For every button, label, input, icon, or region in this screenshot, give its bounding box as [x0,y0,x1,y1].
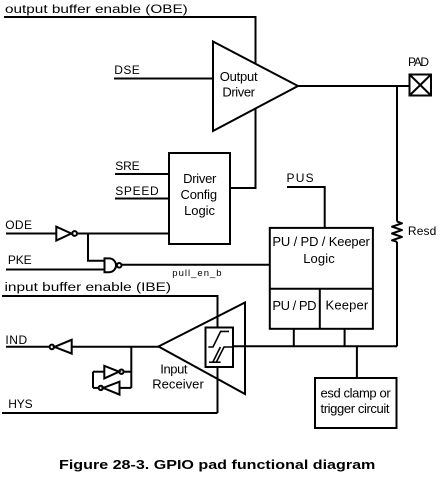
svg-text:Logic: Logic [184,203,215,218]
svg-text:Input: Input [160,362,188,377]
svg-text:PU / PD: PU / PD [272,298,316,313]
svg-text:Figure 28-3. GPIO pad function: Figure 28-3. GPIO pad functional diagram [59,459,375,473]
svg-text:trigger circuit: trigger circuit [321,401,390,416]
svg-text:Driver: Driver [183,171,217,186]
svg-text:esd clamp or: esd clamp or [321,385,392,400]
svg-text:Receiver: Receiver [152,377,204,392]
svg-text:PAD: PAD [408,55,429,69]
svg-text:SPEED: SPEED [115,184,159,198]
svg-text:Resd: Resd [408,224,436,238]
svg-text:HYS: HYS [8,397,33,411]
svg-text:Config: Config [181,187,218,202]
svg-text:Logic: Logic [303,251,335,266]
svg-text:Driver: Driver [222,85,255,100]
svg-text:Output: Output [220,69,258,84]
svg-text:SRE: SRE [115,159,140,173]
svg-text:input buffer enable (IBE): input buffer enable (IBE) [5,280,171,294]
svg-text:IND: IND [5,333,27,347]
svg-text:PU / PD / Keeper: PU / PD / Keeper [272,234,370,249]
svg-text:PUS: PUS [287,171,314,185]
svg-text:pull_en_b: pull_en_b [172,268,221,279]
svg-text:Keeper: Keeper [326,298,369,313]
svg-text:PKE: PKE [8,253,32,267]
svg-text:DSE: DSE [114,63,140,77]
svg-text:ODE: ODE [5,218,32,232]
svg-text:output buffer enable (OBE): output buffer enable (OBE) [5,3,188,16]
